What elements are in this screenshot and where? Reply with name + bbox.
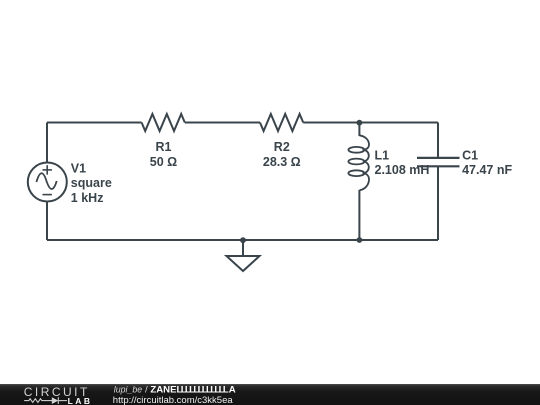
junction dot bottom [357, 237, 363, 243]
footer bar [0, 384, 540, 405]
CircuitLab logo schematic line [24, 397, 67, 404]
svg-text:1 kHz: 1 kHz [71, 191, 104, 205]
svg-text:lupi_be: lupi_be [114, 384, 142, 394]
svg-text:47.47 nF: 47.47 nF [462, 163, 512, 177]
footer author line [114, 384, 236, 395]
wire left rail lower [46, 202, 48, 240]
label L1 2.108 mH [375, 148, 430, 177]
label V1 square 1 kHz [71, 161, 112, 205]
footer bar top highlight [0, 384, 540, 385]
svg-text:50 Ω: 50 Ω [150, 155, 177, 169]
svg-text:28.3 Ω: 28.3 Ω [263, 155, 301, 169]
svg-text:http://circuitlab.com/c3kk5ea: http://circuitlab.com/c3kk5ea [113, 395, 234, 405]
CircuitLab logo diode [52, 397, 59, 404]
label R2 28.3 Ω [263, 140, 301, 169]
wire left rail upper [46, 123, 48, 163]
svg-text:square: square [71, 176, 112, 190]
svg-text:R1: R1 [156, 140, 172, 154]
junction dot top [357, 120, 363, 126]
svg-text:L1: L1 [375, 148, 390, 162]
label C1 47.47 nF [462, 148, 512, 177]
label R1 50 Ω [150, 140, 177, 169]
wire top-right segment [303, 122, 438, 124]
ground [227, 240, 260, 271]
capacitor C1 [417, 158, 460, 166]
wire between R1 and R2 [185, 122, 260, 124]
wire bottom [47, 239, 438, 241]
resistor R1 [142, 114, 185, 131]
inductor L1 [348, 135, 369, 190]
wire right rail lower [437, 167, 439, 240]
svg-text:R2: R2 [274, 140, 290, 154]
wire L1 branch upper [358, 123, 360, 137]
svg-text:/: / [145, 384, 148, 395]
junction dot ground [240, 237, 246, 243]
svg-text:LAB: LAB [68, 396, 93, 405]
svg-text:ZANELLLLLLLLLLLLA: ZANELLLLLLLLLLLLA [150, 384, 235, 395]
wire L1 branch lower [358, 190, 360, 240]
svg-text:V1: V1 [71, 161, 86, 175]
voltage source V1 [28, 163, 67, 202]
resistor R2 [260, 114, 303, 131]
wire right rail upper [437, 123, 439, 158]
svg-text:C1: C1 [462, 148, 478, 162]
wire top-left segment [47, 122, 142, 124]
